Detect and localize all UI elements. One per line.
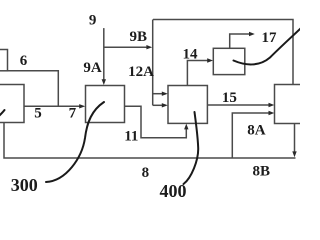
block 400	[168, 86, 207, 124]
arrowhead 15 into right block	[269, 103, 275, 107]
block left (cut off at edge)	[0, 85, 24, 123]
svg-text:8: 8	[142, 165, 150, 181]
wire 6: from top-left block to junction on 5/7 line	[8, 71, 59, 107]
arrowhead 14 into small block	[207, 58, 213, 62]
wire 17: small block top output	[230, 34, 252, 48]
svg-text:14: 14	[183, 47, 199, 63]
block 300	[86, 86, 125, 123]
svg-text:8B: 8B	[252, 163, 270, 179]
svg-text:9A: 9A	[83, 60, 102, 76]
arrowhead 8A into right block	[269, 111, 275, 115]
wire right block bottom down to line 8B	[294, 124, 296, 153]
svg-text:6: 6	[20, 53, 28, 69]
leader curve 300	[46, 102, 104, 182]
arrowhead 17 end	[249, 32, 255, 36]
leader fragment inside left block	[0, 110, 5, 117]
wire branch into block 400 upper	[153, 93, 166, 95]
block right (cut off at edge)	[275, 85, 311, 124]
wire 14: block 400 top to small block	[187, 61, 209, 86]
arrowhead 11 into block 400 bottom	[184, 124, 188, 130]
wire 9: vertical into block 300 top	[103, 28, 105, 83]
svg-text:9: 9	[89, 12, 97, 28]
leader curve top-right (label off-canvas)	[234, 28, 302, 64]
svg-text:11: 11	[124, 129, 138, 145]
svg-text:12A: 12A	[128, 64, 154, 80]
wire 15: block 400 to right block	[207, 104, 269, 106]
svg-text:300: 300	[11, 175, 38, 195]
wire 5/7: left block to block 300	[24, 105, 82, 107]
arrowhead down onto line 8B	[292, 151, 296, 157]
svg-text:9B: 9B	[130, 29, 148, 45]
wire top bus: corner at 153,21 to 293,21 then down into right block	[153, 20, 293, 85]
svg-text:8A: 8A	[247, 123, 266, 139]
wire 11: block 300 right to block 400 bottom	[125, 106, 187, 138]
wire 8 bottom long line	[4, 123, 296, 159]
arrowhead 9B into bus	[146, 45, 152, 49]
wire branch into block 400 lower	[153, 104, 166, 106]
svg-text:7: 7	[69, 106, 77, 122]
leader curve 400	[184, 112, 199, 184]
block top-left (cut off at edge)	[0, 50, 8, 71]
svg-text:400: 400	[160, 181, 187, 200]
arrowhead into block 300 top	[102, 79, 106, 85]
svg-text:5: 5	[34, 106, 42, 122]
arrowhead into block 400 upper	[162, 92, 168, 96]
wire 8A: from bottom line up into right block	[232, 113, 269, 158]
wire 9B: branch right into 12A bus	[104, 46, 150, 48]
arrowhead into block 400 lower	[162, 103, 168, 107]
svg-text:15: 15	[222, 90, 237, 106]
block top-right small	[213, 48, 245, 74]
arrowhead into block 300 left	[79, 104, 85, 108]
wire 12A bus vertical	[152, 20, 154, 106]
svg-text:17: 17	[262, 30, 278, 46]
